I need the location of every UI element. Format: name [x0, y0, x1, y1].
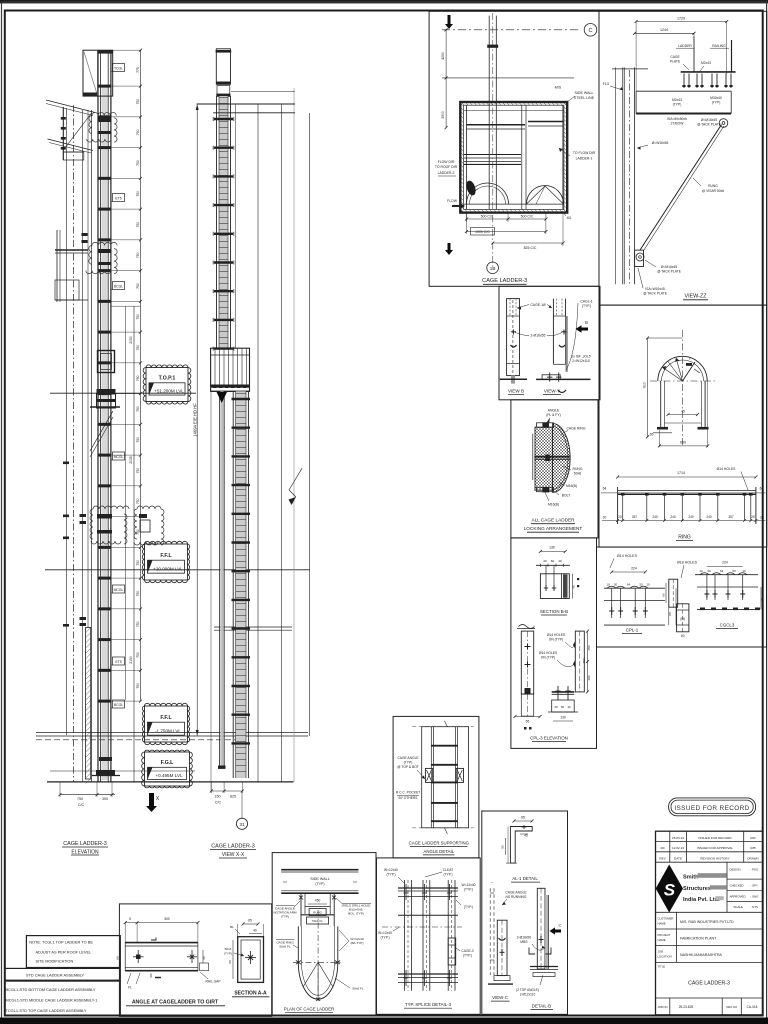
CGCL3 : right dims: [760, 587, 762, 609]
cage ladder-3 elevation : mid platform bracket y350-373: [98, 351, 115, 373]
section A-A : square detail: [238, 937, 264, 983]
svg-text:JOB: JOB: [658, 950, 664, 954]
svg-text:14694 E/E HD HF: 14694 E/E HD HF: [193, 403, 198, 437]
cage ladder-3 view X-X : standpipe below cage: [220, 391, 223, 768]
svg-text:NOTE: TCGL1 TOP LADDER TO BE: NOTE: TCGL1 TOP LADDER TO BE: [29, 940, 93, 945]
svg-text:ISA=50x50x6: ISA=50x50x6: [667, 117, 687, 121]
roof diagonal lines top-left: [46, 100, 95, 113]
plan cage : bolts on bracket: [299, 896, 303, 900]
svg-text:TYP. SPLICE DETAIL-3: TYP. SPLICE DETAIL-3: [405, 1002, 452, 1007]
plan cage : D-hoop sides: [297, 926, 299, 962]
plan view : interior beams: [464, 110, 564, 112]
svg-text:(TYP): (TYP): [404, 761, 413, 765]
svg-text:VIEW-ZZ: VIEW-ZZ: [684, 294, 707, 300]
svg-text:(TYP.): (TYP.): [463, 954, 472, 958]
plan view : dim 825: [493, 242, 563, 244]
svg-text:31: 31: [239, 822, 245, 827]
svg-text:PROJECT: PROJECT: [658, 933, 671, 937]
svg-text:2150: 2150: [129, 656, 133, 664]
svg-text:MCGL1-STD MIDDLE CAGE LADDER A: MCGL1-STD MIDDLE CAGE LADDER ASSEMBLY-1: [6, 998, 98, 1003]
ladder-2 cage edge extension line: [210, 391, 212, 791]
view-ZZ : brace top pin: [719, 119, 728, 128]
ground level line: [47, 781, 294, 783]
svg-text:: SNG: : SNG: [751, 894, 760, 898]
svg-text:610: 610: [643, 382, 647, 388]
svg-text:750: 750: [136, 591, 140, 597]
view-Y : base plate: [542, 375, 560, 380]
svg-text:C: C: [588, 28, 592, 34]
svg-text:50x6 FL: 50x6 FL: [279, 945, 290, 949]
girt angle : bolts: [136, 955, 141, 960]
cage ladder-3 elevation : bracket labels: [113, 64, 125, 72]
svg-text:10: 10: [646, 583, 650, 587]
svg-text:2x ISF ,JOL5: 2x ISF ,JOL5: [571, 355, 590, 359]
level bubble F.F.L +20.000M LVL: [142, 541, 189, 582]
svg-text:BCGL: BCGL: [114, 703, 123, 707]
svg-text:26.03.24: 26.03.24: [672, 836, 684, 840]
cage ladder-3 view X-X : side guide line: [235, 104, 237, 348]
hoop section : legs: [660, 381, 662, 427]
title block : logo cell: [726, 862, 728, 912]
hoop section : inner dim 450: [668, 414, 698, 416]
hoop section : arch outer: [658, 356, 707, 381]
svg-text:BOL. (TYP): BOL. (TYP): [348, 912, 364, 916]
svg-text:10: 10: [742, 569, 746, 573]
svg-text:240: 240: [706, 515, 712, 519]
svg-text:CAGE LADDER-3: CAGE LADDER-3: [63, 841, 106, 847]
bolt marks on column y515/620: [80, 514, 87, 517]
svg-text:65: 65: [650, 433, 654, 437]
plan cage : hoop spokes: [303, 962, 318, 987]
ring detail : band: [618, 490, 756, 492]
svg-text:750: 750: [136, 160, 140, 166]
svg-text:M16(B): M16(B): [566, 484, 577, 488]
svg-text:750: 750: [136, 129, 140, 135]
svg-text:357: 357: [728, 515, 734, 519]
svg-text:SIDE WALL: SIDE WALL: [310, 877, 330, 881]
svg-text:M32x40: M32x40: [710, 96, 722, 100]
svg-text:@ TACK PLATE: @ TACK PLATE: [643, 292, 668, 296]
svg-text:Ø=W16x55: Ø=W16x55: [652, 141, 669, 145]
view B : ground line left: [500, 378, 527, 380]
svg-text:NASHIK,MAHARASHTRA: NASHIK,MAHARASHTRA: [680, 953, 723, 957]
sheet top border bar: [0, 0, 768, 3]
svg-text:Structures: Structures: [683, 886, 711, 892]
svg-text:NAME: NAME: [658, 922, 666, 926]
detail box frame : plan cage ladder-3: [429, 11, 599, 286]
svg-text:240: 240: [688, 515, 694, 519]
view-C : solid channel: [497, 920, 507, 975]
svg-text:REVISION HISTORY: REVISION HISTORY: [700, 857, 729, 861]
cage ladder-3 view X-X : lower ladder: [236, 391, 247, 778]
CPL-3 : left channel elevation: [517, 405, 519, 407]
supporting angle : diagonal ticks: [444, 721, 447, 727]
svg-text:2-Ø16x55: 2-Ø16x55: [531, 334, 546, 338]
svg-text:CPL-1: CPL-1: [626, 628, 639, 633]
svg-text:BY OTHERS: BY OTHERS: [399, 796, 419, 800]
svg-text:(TYP): (TYP): [315, 882, 324, 886]
level bubble F.F.L -1.750M LVL: [142, 703, 189, 744]
F.F.L +20000 level line: [45, 569, 310, 571]
svg-text:50: 50: [551, 559, 555, 563]
svg-text:BOLT: BOLT: [562, 494, 571, 498]
ring detail : guide line: [601, 492, 766, 494]
girt bracket at mid height y230-300: [56, 230, 58, 302]
svg-text:300: 300: [102, 797, 108, 801]
cage ladder-3 elevation : diagonal braces below TOP level: [90, 411, 113, 451]
svg-text:2=W12x110: 2=W12x110: [572, 359, 590, 363]
plan cage : rung box: [309, 909, 326, 916]
svg-text:CLEAT: CLEAT: [443, 868, 453, 872]
svg-text:750: 750: [136, 560, 140, 566]
svg-text:750: 750: [136, 621, 140, 627]
svg-text:TO ROOF DIR: TO ROOF DIR: [435, 165, 458, 169]
detail box frame : CPL-1 and CGCL3: [597, 547, 767, 647]
splice : vertical members: [404, 880, 406, 991]
svg-text:JOB NO: JOB NO: [658, 1005, 668, 1009]
svg-text:TITLE: TITLE: [658, 965, 666, 969]
svg-text:65: 65: [760, 598, 764, 602]
level bubble F.G.L +0.495M LVL: [142, 750, 193, 788]
CGCL3 : plate body: [697, 586, 758, 588]
plan cage : hoop semicircle: [298, 962, 338, 999]
dimension line left of view X-X: [196, 104, 198, 736]
svg-text:2T/BOW: 2T/BOW: [671, 122, 685, 126]
svg-text:(TYP.): (TYP.): [443, 873, 452, 877]
svg-text:300: 300: [164, 917, 170, 921]
svg-text:RING: RING: [678, 535, 691, 541]
cage ladder-3 view X-X : top post: [216, 49, 230, 84]
svg-text:STEEL LINE: STEEL LINE: [574, 96, 595, 100]
svg-text:CAGE LADDER-3: CAGE LADDER-3: [211, 844, 254, 850]
svg-text:130: 130: [549, 546, 555, 550]
svg-text:F.F.L: F.F.L: [160, 553, 172, 559]
svg-text:Ø14 HOLES: Ø14 HOLES: [617, 554, 638, 558]
intermediate level line pair y627-630: [214, 626, 292, 628]
svg-text:1244: 1244: [660, 28, 668, 32]
svg-text:50: 50: [639, 583, 643, 587]
svg-text:CAGE: CAGE: [670, 55, 680, 59]
cage ladder-3 elevation : dense connection at TOP level: [97, 389, 116, 394]
svg-text:LADDER-1: LADDER-1: [576, 157, 593, 161]
svg-text:M16(B): M16(B): [548, 503, 559, 507]
svg-text:TCGL1-STD TOP CAGE LADDER ASSE: TCGL1-STD TOP CAGE LADDER ASSEMBLY: [6, 1008, 87, 1013]
F.F.L -1750 level lines: [36, 731, 308, 733]
supporting angle : ladder rails: [430, 727, 432, 828]
svg-text:CAGE-3: CAGE-3: [461, 949, 473, 953]
svg-text:NS RUNNING: NS RUNNING: [506, 895, 527, 899]
svg-text:RAIL GAP: RAIL GAP: [205, 980, 221, 984]
svg-text:R/B: R/B: [750, 846, 755, 850]
plan view : main square wall outline: [460, 102, 567, 213]
svg-text:50: 50: [732, 569, 736, 573]
svg-text:@ TOP & BOT: @ TOP & BOT: [397, 765, 419, 769]
view B/Y : leader curve to CAGL-1 label: [566, 303, 578, 370]
svg-text:2035: 2035: [129, 456, 133, 464]
svg-text:64: 64: [603, 487, 607, 491]
svg-text:DETAIL-B: DETAIL-B: [532, 1004, 552, 1009]
svg-text:FLOW: FLOW: [447, 199, 458, 203]
svg-text:150: 150: [587, 675, 591, 680]
cage ladder-3 elevation : top platform box: [83, 50, 113, 96]
svg-text:ANGLE: ANGLE: [548, 409, 560, 413]
svg-text:F.G.L: F.G.L: [161, 760, 175, 766]
view-ZZ : diagonal brace: [640, 125, 722, 251]
svg-text:BCGL: BCGL: [114, 284, 123, 288]
detail-B : base plate: [530, 966, 558, 968]
building column grid lines left of ladder-1: [66, 108, 68, 735]
svg-text:CGCL3: CGCL3: [720, 623, 735, 628]
svg-text:DRAWN: DRAWN: [747, 857, 758, 861]
svg-text:357: 357: [632, 515, 638, 519]
title block : job no row: [669, 998, 671, 1015]
svg-text:Ø18 HOLES: Ø18 HOLES: [677, 561, 698, 565]
svg-text:750: 750: [136, 191, 140, 197]
svg-text:STD CAGE LADDER ASSEMBLY: STD CAGE LADDER ASSEMBLY: [26, 972, 85, 977]
svg-text:750: 750: [136, 252, 140, 258]
svg-text:R0: R0: [661, 846, 665, 850]
svg-text:+20.000M LVL: +20.000M LVL: [153, 567, 183, 572]
svg-text:50x6 FL: 50x6 FL: [312, 919, 323, 923]
svg-text:825 C/C: 825 C/C: [524, 246, 537, 250]
svg-text:1B: 1B: [490, 266, 496, 271]
plan view : grid line C: [442, 29, 579, 31]
detail circle 31: [241, 791, 243, 818]
svg-text:Ø=M16x45: Ø=M16x45: [701, 118, 717, 122]
svg-text:750: 750: [136, 314, 140, 320]
svg-text:REV: REV: [659, 857, 666, 861]
detail box frame : CPL-3 elevation: [511, 538, 597, 749]
detail-B : vertical bar: [537, 888, 545, 969]
cage ladder-3 view X-X : cage platform box: [211, 348, 250, 391]
svg-text:FL: FL: [128, 986, 132, 990]
svg-text:750: 750: [136, 498, 140, 504]
hatched wall panel: [86, 628, 91, 784]
detail box frame : angle at cageladder to girt: [119, 904, 271, 1017]
svg-text:W=12x40: W=12x40: [461, 883, 475, 887]
svg-text:LOCATION: LOCATION: [658, 955, 672, 959]
svg-text:450: 450: [315, 899, 321, 903]
svg-text:(TYP): (TYP): [224, 952, 232, 956]
svg-text:(TYP): (TYP): [281, 915, 289, 919]
view-ZZ : bracket verticals: [693, 36, 695, 72]
svg-text:ON (TYP): ON (TYP): [549, 638, 563, 642]
CPL-1 : right dim: [668, 601, 670, 626]
splice : top connector: [398, 887, 458, 889]
svg-text:CUSTOMER: CUSTOMER: [658, 917, 674, 921]
svg-text:45: 45: [681, 410, 685, 414]
svg-text:Ø14 HOLES: Ø14 HOLES: [539, 651, 558, 655]
svg-text:DRG NO: DRG NO: [726, 1005, 737, 1009]
svg-text:750: 750: [136, 406, 140, 412]
svg-text:RUNG: RUNG: [708, 184, 718, 188]
svg-text:20: 20: [603, 516, 607, 520]
svg-text:ISSUED FOR APPROVAL: ISSUED FOR APPROVAL: [697, 846, 733, 850]
svg-text:M2x43: M2x43: [701, 61, 711, 65]
title block : customer row: [656, 928, 763, 930]
company logo diamond with S: [656, 865, 683, 913]
svg-text:DATE: DATE: [674, 857, 682, 861]
hoop section : top dim line: [648, 337, 683, 339]
plan cage : centerlines: [317, 910, 319, 1001]
AL-1 detail : angle shape: [510, 827, 532, 864]
svg-text:450: 450: [582, 658, 586, 663]
svg-text:SECTION B-B: SECTION B-B: [540, 609, 568, 614]
svg-text:45: 45: [202, 956, 206, 960]
cage ladder-3 elevation : cloud connection details: [98, 118, 111, 122]
svg-text:VIEW-Y: VIEW-Y: [544, 389, 560, 394]
svg-text:20: 20: [751, 515, 755, 519]
svg-text:BCGL1-STD BOTTOM CAGE LADDER A: BCGL1-STD BOTTOM CAGE LADDER ASSEMBLY: [6, 987, 96, 992]
svg-text:825: 825: [230, 795, 236, 799]
svg-text:(BA.TYP): (BA.TYP): [350, 941, 363, 945]
svg-text:5: 5: [129, 917, 131, 921]
ladder-1 bottom dimension 750/300: [60, 794, 115, 796]
level bubble T.O.P.1 +51.200M LVL: [143, 365, 191, 404]
svg-text:CAGE LADDER-3: CAGE LADDER-3: [482, 278, 527, 284]
view-C : dashed channel: [489, 888, 491, 975]
plan view : dimension rows below square: [466, 213, 468, 222]
svg-text:150: 150: [215, 795, 221, 799]
svg-text:@ TACK PLATE: @ TACK PLATE: [697, 123, 722, 127]
hoop section : bottom dim 650: [659, 445, 707, 447]
svg-text:@ TACK PLATE: @ TACK PLATE: [657, 270, 682, 274]
title block : revision rows: [656, 841, 763, 843]
svg-text:ET5: ET5: [115, 660, 121, 664]
svg-text:W=12x40: W=12x40: [384, 868, 398, 872]
section A-A : bolt: [250, 951, 252, 964]
svg-text:VIEW B: VIEW B: [508, 389, 524, 394]
svg-text:: PSG: : PSG: [751, 868, 759, 872]
svg-text:(TYP.): (TYP.): [386, 873, 395, 877]
CPL-3 : bottom bracket: [552, 691, 575, 693]
svg-text:FLG: FLG: [603, 82, 610, 86]
svg-text:65: 65: [526, 720, 530, 724]
svg-text:SIDE WALL: SIDE WALL: [574, 91, 593, 95]
locking : mid band: [534, 456, 569, 458]
svg-text:240: 240: [670, 515, 676, 519]
splice : bottom connector: [398, 973, 458, 975]
svg-text:750: 750: [136, 437, 140, 443]
detail box frame : AL-1, view-C, detail-B: [482, 811, 568, 1014]
CPL-3 : right channel elevation: [575, 631, 584, 692]
plan cage : wall bracket verticals: [300, 893, 302, 926]
detail box frame : view B and view-Y: [499, 286, 600, 400]
svg-text:CA-018: CA-018: [747, 1005, 758, 1009]
svg-text:(TYP.): (TYP.): [464, 888, 473, 892]
svg-text:CAGL-1: CAGL-1: [580, 300, 592, 304]
cage ladder-3 elevation : left stringers: [97, 50, 99, 782]
svg-text:750: 750: [136, 345, 140, 351]
long vertical reference lines right of view X-X: [257, 105, 259, 782]
svg-text:2050: 2050: [129, 336, 133, 344]
svg-text:750: 750: [136, 283, 140, 289]
svg-text:Ø14 HOLES: Ø14 HOLES: [717, 467, 737, 471]
svg-text:TO FLOW DIR: TO FLOW DIR: [573, 151, 596, 155]
svg-text:40: 40: [253, 929, 257, 933]
svg-text:India Pvt. Ltd.: India Pvt. Ltd.: [683, 897, 720, 903]
detail-B : C arrow: [550, 927, 562, 934]
view-C : base: [488, 983, 513, 985]
girt angle : left vertical dim: [119, 943, 121, 971]
girt angle : top dim line: [125, 922, 198, 924]
girt angle : small flange marks: [151, 938, 156, 941]
svg-text:4250: 4250: [441, 52, 445, 60]
svg-text:64: 64: [760, 487, 764, 491]
svg-text:C/C: C/C: [215, 801, 222, 805]
plan view : detail circle 1B: [487, 262, 499, 274]
svg-text:60: 60: [681, 634, 685, 638]
CGCL3 : top plate: [695, 574, 758, 576]
svg-text:-1.750M LVL: -1.750M LVL: [155, 729, 181, 734]
svg-text:VIEW X-X: VIEW X-X: [222, 852, 245, 858]
svg-text:224: 224: [631, 567, 637, 571]
svg-text:ELEVATION: ELEVATION: [71, 850, 99, 856]
svg-text:50: 50: [561, 705, 565, 709]
svg-text:2-Ø16x50: 2-Ø16x50: [517, 936, 532, 940]
hoop section : spokes: [662, 367, 683, 381]
svg-text:150: 150: [587, 645, 591, 650]
svg-text:750: 750: [136, 222, 140, 228]
svg-text:B: B: [585, 320, 588, 325]
svg-text:+51.200M LVL: +51.200M LVL: [154, 389, 184, 394]
svg-text:ALL CAGE LADDER: ALL CAGE LADDER: [531, 518, 575, 523]
svg-text:10: 10: [699, 569, 703, 573]
plan view : dark ellipse marker: [465, 179, 478, 196]
svg-text:R/R: R/R: [750, 836, 756, 840]
girt angle : main angle rectangle: [125, 942, 198, 944]
svg-text:50: 50: [614, 583, 618, 587]
svg-text:750: 750: [136, 652, 140, 658]
supporting angle : rungs: [431, 745, 457, 747]
svg-text:ISSUED FOR RECORD: ISSUED FOR RECORD: [698, 836, 732, 840]
locking : top cap: [537, 423, 554, 427]
svg-text:Smith: Smith: [683, 875, 699, 881]
svg-text:R.C.C. POCKET: R.C.C. POCKET: [396, 791, 420, 795]
svg-text:AL-1 DETAIL: AL-1 DETAIL: [512, 876, 538, 881]
view-ZZ : beam top flange with bolts: [681, 71, 736, 73]
svg-text:Ø=M16x45: Ø=M16x45: [661, 265, 677, 269]
plan view : cage hoops (arcs): [467, 183, 509, 204]
svg-text:50x6: 50x6: [225, 947, 232, 951]
svg-text:CPL-3 ELEVATION: CPL-3 ELEVATION: [530, 736, 568, 741]
plan view : interior columns: [466, 105, 468, 209]
svg-text:CAGE ANGLE: CAGE ANGLE: [505, 891, 527, 895]
locking : hatched half ring: [553, 424, 571, 493]
plan view : chimney: [488, 16, 490, 210]
horizontal reference lines at top of view X-X: [197, 103, 295, 105]
detail box frame : locking arrangement: [511, 400, 598, 538]
svg-text:(2 TOP ANGLE): (2 TOP ANGLE): [516, 988, 539, 992]
svg-text:CAGE LADDER-3: CAGE LADDER-3: [688, 981, 730, 987]
svg-text:10: 10: [606, 583, 610, 587]
svg-text:W=12x40: W=12x40: [378, 931, 392, 935]
cage ladder-3 view X-X : upper column: [219, 96, 228, 348]
svg-text:+0.495M LVL: +0.495M LVL: [155, 773, 183, 778]
view-ZZ : beam body: [636, 90, 731, 92]
supporting angle : outer frame: [422, 727, 469, 828]
svg-text:DESIGN: DESIGN: [730, 868, 741, 872]
note box : TCGL1 adjust note: [26, 936, 120, 968]
cage ladder-3 elevation : dimension lines: [140, 50, 142, 701]
svg-text:SCALE: SCALE: [734, 905, 744, 909]
svg-text:50x6: 50x6: [574, 472, 581, 476]
svg-text:750: 750: [136, 529, 140, 535]
girt angle : FL label and leaders: [127, 973, 131, 984]
svg-text:1729: 1729: [677, 17, 685, 21]
girt angle : right small dims: [202, 950, 204, 963]
svg-text:750: 750: [136, 375, 140, 381]
